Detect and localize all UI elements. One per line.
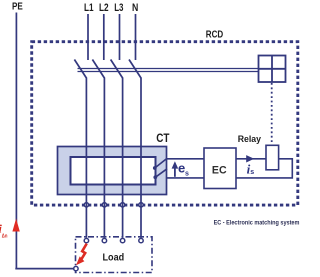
es arrow — [172, 161, 179, 177]
wire L3 upper stub — [119, 14, 121, 60]
Load box dash-dot — [76, 237, 153, 273]
terminal N on RCD border — [139, 203, 143, 207]
svg-text:s: s — [185, 170, 189, 177]
svg-text:L2: L2 — [99, 2, 109, 14]
svg-text:N: N — [132, 2, 138, 14]
wire N main vertical — [140, 78, 142, 238]
svg-text:PE: PE — [12, 1, 23, 12]
is arrowhead — [246, 155, 254, 162]
svg-text:Load: Load — [103, 251, 125, 263]
wire L1 upper stub — [87, 14, 89, 60]
switch blade N — [129, 60, 141, 79]
svg-text:CT: CT — [156, 131, 170, 145]
wire PE bottom horizontal to fault node — [15, 268, 74, 270]
wire L1 main vertical — [85, 78, 87, 238]
CT core block — [58, 147, 167, 195]
CT secondary slash lower — [155, 169, 167, 178]
EC box — [204, 148, 236, 189]
test element square with cross — [259, 56, 286, 83]
fault node circle — [74, 266, 78, 270]
load terminal L3 — [120, 238, 124, 242]
wire CT to EC bottom — [166, 177, 204, 179]
switch blade L2 — [92, 60, 104, 79]
wire N upper stub — [135, 14, 137, 60]
CT secondary slash upper — [155, 159, 167, 168]
residual current arrow red on PE — [12, 219, 19, 232]
wire CT to EC top — [166, 158, 204, 160]
fault lightning arrow red — [76, 244, 87, 266]
wire relay right and return to EC — [236, 159, 292, 178]
svg-text:L1: L1 — [84, 2, 94, 14]
mechanical linkage double line — [78, 69, 259, 72]
CT secondary junction dot upper — [153, 166, 157, 170]
switch blade L1 — [74, 60, 86, 79]
dotted link square to relay — [271, 83, 273, 145]
terminal L1 on RCD border — [84, 203, 88, 207]
CT window — [71, 157, 156, 185]
terminal L2 on RCD border — [102, 203, 106, 207]
switch blade L3 — [111, 60, 123, 79]
svg-text:RCD: RCD — [206, 29, 223, 40]
wire L2 upper stub — [103, 14, 105, 60]
terminal L3 on RCD border — [120, 203, 124, 207]
wire EC to relay top — [236, 158, 266, 160]
wire L2 main vertical — [103, 78, 105, 238]
RCD dashed enclosure border — [32, 42, 298, 205]
svg-text:EC - Electronic matching syste: EC - Electronic matching system — [214, 221, 300, 227]
svg-text:s: s — [250, 169, 254, 176]
wire L3 main vertical — [122, 78, 124, 238]
wire PE vertical — [15, 13, 17, 269]
svg-text:L3: L3 — [114, 2, 123, 14]
svg-text:EC: EC — [212, 165, 227, 177]
load terminal L2 — [102, 238, 106, 242]
svg-text:Relay: Relay — [238, 134, 261, 144]
relay coil box — [266, 145, 279, 170]
load terminal L1 — [84, 238, 88, 242]
load terminal N — [139, 238, 143, 242]
svg-text:Δn: Δn — [2, 234, 8, 240]
CT secondary junction dot lower — [153, 175, 157, 179]
